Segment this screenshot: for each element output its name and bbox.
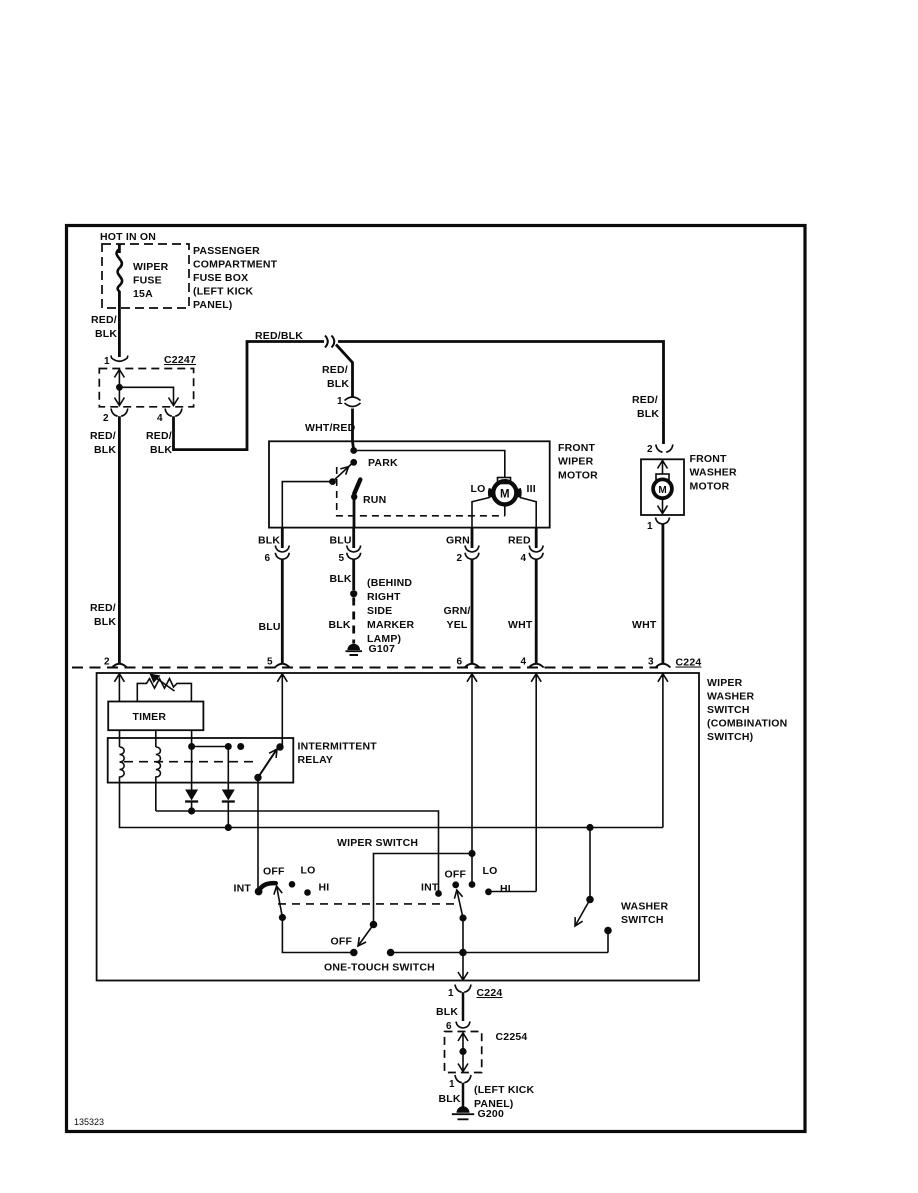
svg-text:RED/: RED/: [146, 430, 172, 442]
svg-text:(BEHIND: (BEHIND: [367, 577, 412, 589]
wiper switch A moving arm (thick arc): [259, 883, 276, 891]
svg-text:PASSENGER: PASSENGER: [193, 245, 260, 257]
svg-text:MOTOR: MOTOR: [690, 480, 730, 492]
svg-text:ONE-TOUCH SWITCH: ONE-TOUCH SWITCH: [324, 962, 435, 974]
svg-text:RED/BLK: RED/BLK: [255, 330, 303, 342]
svg-text:SWITCH: SWITCH: [707, 704, 750, 716]
arrow up to C224 pin 6: [467, 674, 477, 885]
arrow down to pin 2: [114, 398, 124, 406]
svg-text:1: 1: [104, 356, 110, 367]
svg-text:INTERMITTENT: INTERMITTENT: [298, 741, 378, 753]
connector C2247 pin 1 symbol: [111, 356, 128, 362]
wire WHT column to C224 pin 4: [535, 559, 538, 663]
svg-text:2: 2: [457, 553, 463, 564]
svg-text:FRONT: FRONT: [558, 442, 596, 454]
relay contact dot a: [188, 743, 195, 750]
intermittent relay box: [108, 738, 294, 783]
junction dot inside C2254: [459, 1048, 466, 1055]
svg-text:BLU: BLU: [330, 535, 352, 547]
svg-text:(LEFT KICK: (LEFT KICK: [474, 1084, 535, 1096]
svg-text:RED/: RED/: [632, 394, 658, 406]
svg-text:(LEFT KICK: (LEFT KICK: [193, 286, 254, 298]
motor M1 armature cap: [498, 478, 511, 484]
washer switch arm arrowhead: [575, 917, 583, 926]
svg-text:M: M: [658, 485, 666, 496]
svg-text:WHT: WHT: [508, 619, 533, 631]
wire timer to relay coil 1: [119, 730, 121, 747]
svg-text:HOT IN ON: HOT IN ON: [100, 231, 156, 243]
svg-text:BLK: BLK: [330, 573, 352, 585]
svg-text:WIPER: WIPER: [558, 456, 594, 468]
svg-text:INT: INT: [234, 883, 252, 895]
wire one-touch upper contact to LO feed: [374, 854, 473, 925]
junction dot on LO feed: [468, 850, 475, 857]
arrow up into pin 1: [114, 370, 124, 378]
diode D2 wire: [227, 747, 229, 791]
one-touch left contact dot: [350, 949, 358, 957]
C224 pin 5 bump: [275, 664, 290, 668]
washer switch upper contact dot: [586, 896, 594, 904]
wire branch from splice down to front wiper motor: [336, 345, 353, 397]
svg-text:GRN: GRN: [446, 535, 470, 547]
label PASSENGER COMPARTMENT FUSE BOX (LEFT KICK PANEL): [193, 245, 278, 311]
label FRONT WASHER MOTOR: [690, 453, 738, 492]
arrow down to pin 4: [169, 398, 179, 406]
park arm pivot dot: [329, 478, 336, 485]
wire timer to relay contact: [191, 730, 193, 746]
svg-text:COMPARTMENT: COMPARTMENT: [193, 259, 278, 271]
svg-text:C224: C224: [477, 987, 503, 999]
svg-text:WASHER: WASHER: [621, 901, 669, 913]
svg-text:C224: C224: [676, 657, 702, 669]
wire timer to relay coil 2: [155, 730, 157, 747]
svg-text:2: 2: [104, 657, 110, 668]
svg-text:III: III: [527, 483, 536, 495]
wiper switch A LO contact dot: [289, 881, 296, 888]
svg-text:5: 5: [267, 657, 273, 668]
wire coil1 bus to washer switch and C224 pin 3: [120, 783, 663, 828]
svg-text:135323: 135323: [74, 1117, 104, 1127]
wire one-touch right contact to output junction: [391, 952, 608, 954]
motor M1 left brush tab: [488, 489, 492, 498]
svg-text:FUSE BOX: FUSE BOX: [193, 272, 248, 284]
svg-text:C2247: C2247: [164, 354, 196, 366]
svg-text:LO: LO: [483, 865, 498, 877]
wire PARK junction to motor armature: [354, 451, 505, 478]
motor M1 body: [493, 481, 516, 504]
diode D1 wire to bus: [191, 802, 193, 812]
C2254 pin 6 connector symbol: [456, 1022, 470, 1029]
svg-text:BLK: BLK: [95, 328, 117, 340]
wire park arm to BLK pin 6: [282, 482, 332, 528]
wire BLK to ground G107 (solid part): [352, 559, 355, 590]
arrow up to C224 pin 2: [114, 674, 124, 702]
fuse box dashed outline (passenger compartment fuse box): [102, 244, 189, 308]
svg-text:5: 5: [339, 553, 345, 564]
contact RUN: [354, 480, 360, 494]
C224 pin 1 connector symbol: [455, 985, 471, 993]
wire washer motor to C224 pin 3: [662, 524, 665, 663]
relay arm arrowhead: [269, 749, 277, 758]
connector C2247 dashed box: [99, 369, 193, 407]
svg-text:RELAY: RELAY: [298, 754, 334, 766]
wire label RED/BLK (left column): [90, 602, 116, 628]
svg-text:C2254: C2254: [496, 1031, 528, 1043]
relay contact wire: [192, 746, 229, 748]
svg-text:PANEL): PANEL): [193, 299, 233, 311]
wiper switch B LO contact dot: [469, 881, 476, 888]
svg-text:PARK: PARK: [368, 457, 398, 469]
wire output junction down with arrow to C224 pin 1: [458, 953, 468, 981]
wire from HOT IN ON into fuse: [118, 244, 121, 253]
one-touch switch arm: [358, 925, 373, 946]
wiper switch B selector arm with arrow: [457, 890, 463, 918]
wiper switch B pivot dot: [459, 914, 466, 921]
washer switch arm: [576, 900, 590, 926]
pin 2 connector symbol: [111, 409, 128, 417]
wire C2254 pin 1 to ground G200: [462, 1083, 465, 1108]
park switch arm: [333, 464, 353, 482]
svg-text:LO: LO: [471, 483, 486, 495]
combination switch box: [97, 673, 699, 981]
svg-text:1: 1: [449, 1079, 455, 1090]
one-touch arm arrowhead: [358, 937, 366, 946]
variable resistor loop above timer: [137, 679, 191, 702]
svg-text:WHT/RED: WHT/RED: [305, 422, 356, 434]
svg-text:OFF: OFF: [263, 866, 285, 878]
svg-text:BLK: BLK: [439, 1093, 461, 1105]
wire relay arm to INT contact of wiper switch A: [257, 778, 259, 889]
svg-text:OFF: OFF: [331, 936, 353, 948]
wiper switch A pivot dot: [279, 914, 286, 921]
svg-text:4: 4: [521, 657, 527, 668]
C2254 pin 1 connector symbol: [455, 1075, 471, 1083]
svg-text:RED/: RED/: [322, 364, 348, 376]
wire C2247 pin 2 down to C224 pin 2: [118, 416, 121, 663]
svg-text:HI: HI: [319, 882, 330, 894]
svg-text:RED/: RED/: [90, 602, 116, 614]
one-touch right contact dot: [387, 949, 395, 957]
wire label RED/BLK: [91, 314, 117, 340]
diode D2: [222, 790, 235, 801]
motor M2 armature cap: [656, 474, 669, 480]
svg-text:1: 1: [448, 988, 454, 999]
wiper switch A selector link with arrow: [277, 886, 283, 918]
wire BLK dashed to G107: [352, 598, 355, 644]
relay contact dot c: [237, 743, 244, 750]
border frame: [67, 226, 806, 1132]
fuse WIPER FUSE 15A (fusible link squiggle): [117, 249, 123, 292]
relay arm bottom dot: [254, 774, 261, 781]
svg-text:HI: HI: [500, 883, 511, 895]
svg-text:WIPER: WIPER: [707, 677, 743, 689]
svg-text:YEL: YEL: [447, 619, 468, 631]
RUN contact dot: [351, 494, 357, 500]
svg-text:(COMBINATION: (COMBINATION: [707, 718, 787, 730]
wire label RED/BLK (branch): [322, 364, 349, 390]
arrow up to C224 pin 5: [277, 674, 287, 747]
relay contact dot b: [225, 743, 232, 750]
svg-text:BLK: BLK: [94, 616, 116, 628]
C224 pin 2 bump: [112, 664, 127, 668]
arrow into washer motor: [658, 461, 668, 475]
svg-text:1: 1: [647, 521, 653, 532]
front washer motor feed wire label RED/BLK: [632, 394, 659, 420]
wire inside C2247: [119, 370, 173, 406]
label (LEFT KICK PANEL): [474, 1084, 535, 1110]
relay coil 1: [120, 747, 125, 783]
svg-text:RIGHT: RIGHT: [367, 591, 401, 603]
motor bottom stub to linkage: [504, 505, 506, 516]
relay arm top dot: [276, 743, 283, 750]
svg-text:4: 4: [157, 413, 163, 424]
inline connector symbol: [345, 397, 361, 407]
arrow down inside C2254: [458, 1052, 468, 1072]
front washer motor box: [641, 459, 684, 515]
wire motor HI brush to RED pin 4: [520, 498, 536, 528]
svg-text:SWITCH: SWITCH: [621, 914, 664, 926]
washer switch lower contact dot: [604, 927, 612, 935]
ground G107 symbol: [347, 644, 360, 650]
wiper switch B HI contact dot: [485, 888, 492, 895]
label (BEHIND RIGHT SIDE MARKER LAMP): [367, 577, 414, 645]
wire washer lower contact to output junction: [607, 931, 609, 953]
svg-text:BLU: BLU: [259, 621, 281, 633]
svg-text:GRN/: GRN/: [444, 605, 471, 617]
svg-text:RUN: RUN: [363, 494, 386, 506]
svg-text:BLK: BLK: [436, 1006, 458, 1018]
svg-text:BLK: BLK: [258, 535, 280, 547]
contact PARK: [350, 459, 357, 466]
svg-text:3: 3: [648, 657, 654, 668]
svg-text:BLK: BLK: [637, 408, 659, 420]
arrow out of washer motor: [658, 499, 668, 514]
svg-text:FUSE: FUSE: [133, 275, 162, 287]
arrow up to C224 pin 3: [658, 674, 668, 828]
washer switch feed wire: [589, 828, 591, 900]
wire BLU column pin6 to C224 pin 5: [281, 559, 284, 663]
svg-text:OFF: OFF: [445, 869, 467, 881]
connector C224 dashed line: [72, 667, 658, 669]
relay switch arm: [258, 749, 277, 778]
wire C2247 pin 4 feed to RED/BLK bus: [174, 342, 325, 450]
svg-text:SIDE: SIDE: [367, 605, 392, 617]
label WIPER WASHER SWITCH (COMBINATION SWITCH): [707, 677, 787, 743]
C224 pin 6 bump: [465, 664, 480, 668]
svg-text:4: 4: [521, 553, 527, 564]
svg-text:WASHER: WASHER: [690, 467, 738, 479]
mechanical linkage dashed (switch A to switch B): [278, 903, 456, 905]
svg-text:MARKER: MARKER: [367, 619, 414, 631]
svg-text:G107: G107: [369, 643, 396, 655]
svg-text:2: 2: [647, 444, 653, 455]
arrow up to C224 pin 4: [531, 674, 541, 892]
output junction dot: [459, 949, 467, 957]
label WIPER FUSE 15A: [133, 261, 169, 300]
one-touch upper contact dot: [370, 921, 378, 929]
svg-text:15A: 15A: [133, 288, 153, 300]
wire label RED/BLK (pin 2): [90, 430, 116, 456]
junction dot diode D2: [225, 824, 232, 831]
wiper switch B INT contact dot: [435, 890, 442, 897]
relay coil 2: [156, 747, 161, 811]
motor pin 6 BLK wire and inline connector: [281, 528, 284, 548]
svg-text:6: 6: [457, 657, 463, 668]
C224 pin 4 bump: [529, 664, 544, 668]
wire switch B pivot to output junction: [462, 918, 464, 953]
wire HI contact to C224 pin 4 wire: [489, 891, 537, 893]
splice dot on BLK ground wire: [350, 590, 357, 597]
mechanical linkage dashed line: [337, 467, 505, 516]
motor pin 5 BLU wire and inline connector: [352, 528, 355, 548]
svg-text:WIPER: WIPER: [133, 261, 169, 273]
svg-text:RED/: RED/: [91, 314, 117, 326]
wire fuse to connector C2247 pin 1: [118, 291, 121, 357]
svg-text:6: 6: [446, 1021, 452, 1032]
wiper switch A HI contact dot: [304, 889, 311, 896]
wire connector to wiper motor PARK: [353, 409, 354, 451]
svg-text:BLK: BLK: [94, 444, 116, 456]
svg-text:FRONT: FRONT: [690, 453, 728, 465]
label WASHER SWITCH: [621, 901, 669, 927]
svg-text:RED: RED: [508, 535, 531, 547]
svg-text:MOTOR: MOTOR: [558, 469, 598, 481]
svg-text:1: 1: [337, 396, 343, 407]
park switch arm arrowhead: [340, 467, 348, 475]
junction dot washer switch feed: [586, 824, 593, 831]
wire coil2 bus to INT contact of wiper switch B: [156, 811, 439, 894]
svg-text:LO: LO: [301, 865, 316, 877]
relay dashed linkage: [124, 761, 256, 763]
connector C2254 dashed box: [445, 1032, 482, 1073]
svg-text:BLK: BLK: [329, 619, 351, 631]
svg-text:6: 6: [265, 553, 271, 564]
svg-text:TIMER: TIMER: [133, 711, 167, 723]
wire RUN to BLU pin 5: [353, 497, 356, 528]
washer motor pin 1 connector symbol: [656, 518, 670, 525]
svg-text:WHT: WHT: [632, 619, 657, 631]
svg-text:M: M: [500, 488, 510, 500]
variable resistor arrow: [154, 676, 175, 691]
junction dot diode D1: [188, 807, 195, 814]
wiper switch A INT contact dot: [255, 888, 263, 896]
svg-text:BLK: BLK: [150, 444, 172, 456]
svg-text:SWITCH): SWITCH): [707, 731, 753, 743]
wire C224 pin 1 to C2254 pin 6: [462, 992, 465, 1021]
wire RED/BLK bus to washer motor: [338, 342, 664, 445]
junction dot inside C2247: [116, 384, 123, 391]
front wiper motor box: [269, 441, 550, 527]
C224 pin 3 bump: [655, 664, 670, 668]
svg-text:BLK: BLK: [327, 378, 349, 390]
wire GRN/YEL column to C224 pin 6: [471, 559, 474, 663]
diode D2 wire to lower bus: [227, 802, 229, 828]
svg-text:RED/: RED/: [90, 430, 116, 442]
node PARK junction: [350, 447, 357, 454]
wire label RED/BLK (pin 4): [146, 430, 172, 456]
pin 4 connector symbol: [165, 409, 182, 417]
ground G200 symbol: [457, 1106, 470, 1113]
splice symbol on bus: [325, 336, 334, 348]
motor M1 right brush tab: [517, 489, 521, 498]
motor M2 body: [653, 479, 672, 498]
motor pin 4 RED wire and inline connector: [535, 528, 538, 548]
svg-text:G200: G200: [478, 1108, 505, 1120]
diode D1: [185, 790, 198, 801]
label FRONT WIPER MOTOR: [558, 442, 598, 481]
diode D1 wire: [191, 747, 193, 791]
wiper switch B OFF contact dot: [452, 881, 459, 888]
wire motor LO brush to GRN pin 2: [472, 498, 490, 528]
svg-text:WASHER: WASHER: [707, 691, 755, 703]
svg-text:2: 2: [103, 413, 109, 424]
timer box: [108, 702, 203, 731]
wire switch A pivot to one-touch contact: [282, 918, 353, 953]
svg-text:WIPER SWITCH: WIPER SWITCH: [337, 837, 418, 849]
washer motor pin 2 connector symbol: [656, 445, 673, 453]
arrow up inside C2254: [458, 1033, 468, 1052]
motor pin 2 GRN wire and inline connector: [471, 528, 474, 548]
label INTERMITTENT RELAY: [298, 741, 378, 767]
